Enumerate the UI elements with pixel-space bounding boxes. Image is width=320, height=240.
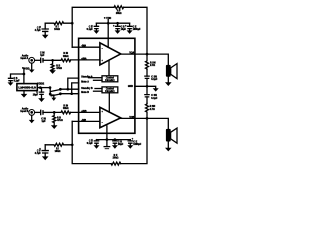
svg-text:0.1µF: 0.1µF — [87, 29, 94, 31]
speaker B — [166, 128, 177, 143]
ground CS2 — [8, 82, 14, 85]
svg-text:2.7Ω: 2.7Ω — [150, 109, 155, 111]
ground CE top — [127, 30, 133, 34]
svg-text:Mute B: Mute B — [81, 91, 89, 94]
svg-text:VDD/2: VDD/2 — [37, 84, 44, 86]
ground switches — [51, 98, 56, 101]
wire standby net — [61, 78, 79, 89]
node VOA — [146, 53, 149, 56]
ground RB_A — [49, 70, 56, 74]
node standby tie — [66, 88, 69, 91]
svg-text:20kΩ: 20kΩ — [113, 158, 119, 160]
svg-text:10kΩ: 10kΩ — [63, 56, 69, 58]
node mute tie — [70, 92, 73, 95]
ground regulator — [21, 91, 28, 98]
capacitor CSN_B 0.1uF — [144, 86, 158, 103]
switch S1 standby — [51, 89, 62, 92]
wire to CS2 — [11, 74, 24, 78]
svg-text:10µF: 10µF — [118, 144, 124, 146]
svg-text:10µF: 10µF — [33, 95, 39, 97]
supply rail top — [96, 22, 129, 24]
wire standby B to control block — [95, 88, 102, 90]
pin label +INA — [81, 57, 87, 60]
op-amp U1A — [100, 43, 121, 65]
ground CS_B — [94, 145, 100, 149]
wire +INB pin — [71, 111, 100, 113]
wire GND pin to node — [135, 86, 156, 88]
wire +INA pin — [71, 59, 100, 61]
ground CB_B — [112, 145, 118, 149]
wire op-amp A output to VOA node — [121, 53, 147, 55]
resistor RSN_A 2.7 — [146, 54, 156, 69]
wire GND pin bottom stub — [106, 126, 108, 140]
label Audio Input B — [20, 108, 29, 114]
capacitor CS_B bottom 0.1uF — [87, 138, 100, 145]
wire feedback B right vertical — [121, 118, 147, 163]
wire control A to op-amp A — [108, 60, 110, 76]
ground RB_B — [51, 125, 58, 129]
wire -INA pin — [72, 46, 100, 48]
node feedback B junction — [71, 143, 74, 146]
svg-text:2.7Ω: 2.7Ω — [150, 65, 155, 67]
wire feedback A top right + down to VOA — [124, 7, 147, 54]
wire VOA node to speaker A — [147, 54, 168, 65]
pin label Mute A — [81, 81, 89, 84]
node input A junction — [51, 59, 54, 62]
wire switch common — [50, 88, 54, 98]
svg-text:GND: GND — [128, 86, 133, 88]
control circuitry block B — [102, 87, 118, 93]
ground CB top — [115, 30, 121, 34]
wire mute net — [61, 83, 79, 94]
svg-text:1000µF: 1000µF — [133, 29, 141, 31]
ground jack A — [29, 63, 35, 73]
svg-text:Circuitry: Circuitry — [105, 79, 115, 82]
control circuitry block A — [102, 76, 118, 82]
svg-text:LM4050-5.0: LM4050-5.0 — [18, 86, 37, 89]
node regulator output — [39, 86, 42, 89]
svg-text:1000µF: 1000µF — [133, 144, 141, 146]
ground CS top — [93, 30, 99, 34]
wire control B to op-amp B — [108, 93, 110, 112]
resistor RSN_B 2.7 — [146, 103, 156, 118]
svg-text:0.1µF: 0.1µF — [151, 98, 158, 100]
wire mute A to control block — [94, 79, 103, 81]
node feedback A junction — [71, 22, 74, 25]
pin label VOB — [129, 117, 134, 119]
wire VDD stub into IC — [107, 20, 109, 48]
svg-text:47kΩ: 47kΩ — [56, 67, 62, 70]
wire standby A to control block — [89, 77, 103, 79]
ground speaker A — [165, 77, 172, 86]
pin label GND — [128, 86, 133, 88]
label VDD top — [104, 17, 112, 20]
ground CF_B — [42, 156, 49, 160]
wire feedback B bottom left — [72, 121, 111, 163]
capacitor CIN_A 1uF — [40, 52, 53, 63]
svg-text:Input B: Input B — [20, 110, 28, 113]
capacitor CF_A 4.7uF — [35, 23, 49, 35]
ground jack B — [29, 115, 35, 123]
svg-text:Input A: Input A — [20, 57, 28, 60]
ground CF_A — [42, 35, 49, 39]
op-amp U1B — [100, 107, 121, 127]
pin label Standby B — [81, 87, 93, 90]
svg-text:0.1µF: 0.1µF — [87, 143, 94, 145]
resistor RB_B 47k — [53, 112, 63, 125]
label VDD regulator input — [22, 67, 30, 70]
wire mute B to control block — [94, 90, 103, 92]
wire VDD stub to node — [23, 68, 25, 83]
resistor RIN_B 10k — [54, 105, 70, 114]
wire regulator output — [37, 87, 50, 89]
ground speaker B — [165, 142, 172, 152]
label Audio Input A — [20, 55, 28, 61]
capacitor CS2 0.1uF — [8, 78, 20, 83]
svg-text:1µF: 1µF — [41, 121, 46, 123]
capacitor CIN_B 1uF — [41, 110, 55, 124]
label VDD/2 — [37, 84, 44, 86]
node switch rail — [49, 86, 52, 89]
svg-text:10kΩ: 10kΩ — [54, 29, 60, 31]
svg-text:0.1µF: 0.1µF — [151, 79, 158, 81]
wire feedback A vertical left — [72, 7, 114, 47]
ground right — [153, 88, 159, 91]
svg-text:20kΩ: 20kΩ — [116, 13, 122, 15]
svg-text:1µF: 1µF — [40, 55, 45, 57]
resistor RF_A 20k — [114, 6, 124, 15]
capacitor CB 10uF top — [113, 23, 126, 31]
wire -INB pin — [72, 120, 100, 122]
resistor RF_B 20k — [111, 155, 121, 165]
svg-text:Circuitry: Circuitry — [105, 90, 115, 93]
pin label -INB — [81, 120, 86, 122]
node switch common — [49, 93, 52, 96]
svg-text:Standby B: Standby B — [81, 87, 93, 90]
svg-text:V DD: V DD — [24, 68, 29, 70]
capacitor CF_B 4.7uF — [35, 145, 49, 157]
resistor RI_A 10k — [45, 22, 72, 32]
wire VOB node to speaker B — [147, 118, 168, 128]
svg-text:10kΩ: 10kΩ — [63, 108, 69, 110]
node regulator input — [23, 73, 26, 76]
svg-text:Standby A: Standby A — [81, 76, 93, 79]
IC U1 outline — [79, 38, 135, 133]
node GND right — [146, 85, 149, 88]
capacitor CB_B bottom 10uF — [112, 140, 124, 146]
node bottom rail junctions — [106, 138, 117, 141]
capacitor CS 0.1uF top — [87, 23, 100, 31]
pin label +INB — [81, 111, 87, 113]
jack J2 — [29, 110, 41, 116]
resistor RB_A 47k — [51, 60, 62, 71]
switch S2 mute — [51, 93, 61, 96]
capacitor CE 1000uF top — [125, 23, 141, 31]
svg-text:0.1µF: 0.1µF — [14, 81, 21, 83]
resistor RIN_A 10k — [53, 53, 71, 62]
svg-text:10kΩ: 10kΩ — [55, 151, 61, 153]
wire op-amp B output to VOB node — [121, 117, 147, 119]
pin label VOA — [129, 52, 134, 55]
svg-text:Audio: Audio — [22, 108, 29, 111]
jack J1 — [29, 57, 41, 63]
regulator U2 LM4050-5.0 — [17, 84, 37, 91]
ground CREF — [38, 98, 45, 102]
capacitor CSN_A 0.1uF — [144, 69, 158, 86]
svg-text:10µF: 10µF — [121, 29, 127, 31]
svg-text:Mute A: Mute A — [81, 81, 89, 84]
capacitor CE_B bottom 1000uF — [128, 137, 142, 146]
resistor RI_B 10k — [45, 143, 72, 153]
supply rail bottom — [97, 139, 131, 141]
svg-text:47kΩ: 47kΩ — [57, 119, 63, 122]
pin label -INA — [81, 45, 86, 48]
node VDD rail junctions — [107, 22, 119, 25]
capacitor CREF 10uF — [33, 88, 45, 99]
pin label Mute B — [81, 91, 89, 94]
svg-text:4.7µF: 4.7µF — [35, 29, 42, 32]
svg-text:Audio: Audio — [22, 55, 29, 58]
node input B junction — [53, 111, 56, 114]
ground CE_B — [127, 145, 133, 149]
svg-text:4.7µF: 4.7µF — [35, 152, 42, 155]
speaker A — [166, 64, 177, 79]
ground bottom bar — [104, 140, 111, 149]
node VOB — [146, 117, 149, 120]
pin label Standby A — [81, 76, 93, 79]
